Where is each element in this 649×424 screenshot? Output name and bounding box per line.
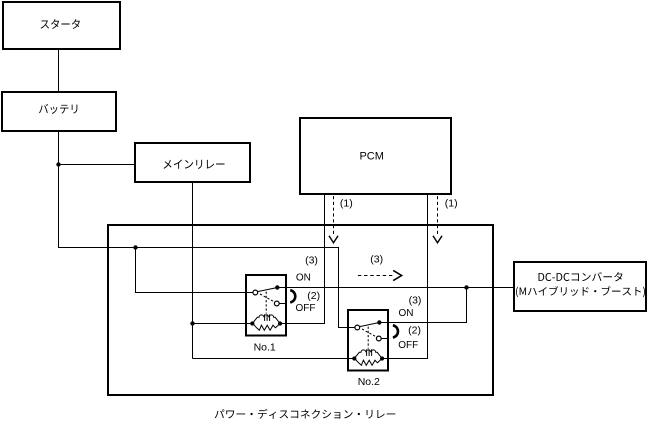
svg-text:(3): (3) xyxy=(370,254,383,266)
svg-text:(2): (2) xyxy=(408,325,421,337)
svg-text:OFF: OFF xyxy=(398,340,418,351)
svg-text:PCM: PCM xyxy=(359,151,383,163)
svg-text:OFF: OFF xyxy=(296,303,316,314)
svg-text:No.1: No.1 xyxy=(254,342,276,354)
svg-text:(2): (2) xyxy=(307,290,320,302)
svg-text:ON: ON xyxy=(296,273,311,284)
svg-text:(1): (1) xyxy=(340,198,353,210)
svg-text:No.2: No.2 xyxy=(358,376,380,388)
svg-text:(1): (1) xyxy=(445,198,458,210)
svg-text:(3): (3) xyxy=(409,295,422,307)
svg-text:ON: ON xyxy=(399,308,414,319)
svg-text:(3): (3) xyxy=(305,254,318,266)
